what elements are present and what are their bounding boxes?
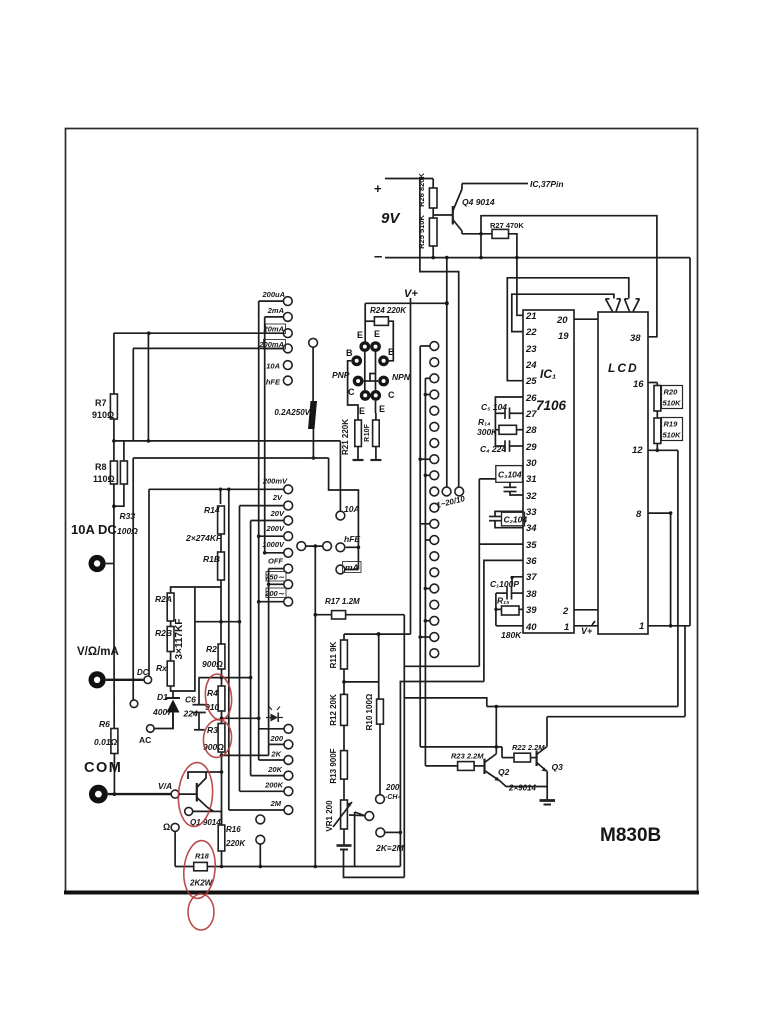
wire 2mA stub to bus xyxy=(265,316,284,318)
wire 20mA branch drop xyxy=(147,333,149,441)
socket pin C right xyxy=(370,390,381,401)
wire R3 bottom to 200 ohm row xyxy=(222,754,269,756)
svg-text:R21 220K: R21 220K xyxy=(341,419,350,455)
svg-text:3×117KF: 3×117KF xyxy=(174,619,185,660)
contact spare upper xyxy=(256,815,265,824)
resistor R17 1.2M xyxy=(315,614,331,616)
svg-text:10A: 10A xyxy=(344,504,360,514)
svg-text:hFE: hFE xyxy=(266,378,281,387)
svg-text:12: 12 xyxy=(632,445,643,456)
wire pin12 riser xyxy=(677,450,679,706)
contact row 11 xyxy=(430,503,439,512)
wire R6 to COM row xyxy=(113,754,115,795)
wire R7 bottom junction xyxy=(113,419,115,461)
svg-text:IC,37Pin: IC,37Pin xyxy=(530,179,564,189)
socket pin C left xyxy=(360,390,371,401)
wire pin8 riser xyxy=(670,513,672,626)
svg-text:1~20/10: 1~20/10 xyxy=(435,494,466,510)
svg-text:9V: 9V xyxy=(381,210,401,227)
resistor R26 820K xyxy=(432,179,434,189)
LCD backplane funnel right xyxy=(625,299,640,312)
capacitor C6 224 xyxy=(198,678,200,705)
transistor Q2 xyxy=(483,759,485,775)
svg-text:2: 2 xyxy=(562,606,569,617)
IC1 pin numbers left column xyxy=(525,311,537,633)
svg-text:R2: R2 xyxy=(206,644,217,654)
wire pin2 to LCD xyxy=(574,609,598,611)
wire bracket mid tie xyxy=(195,621,240,623)
svg-text:IC₁: IC₁ xyxy=(540,367,556,381)
contact row 13 xyxy=(430,536,439,545)
wire 2K-2M stub xyxy=(385,831,401,833)
svg-text:7106: 7106 xyxy=(536,398,567,413)
svg-text:31: 31 xyxy=(526,474,537,485)
node V+ junction xyxy=(445,301,449,305)
resistor R23 2.2M xyxy=(458,762,475,771)
svg-text:8: 8 xyxy=(636,509,642,520)
svg-text:29: 29 xyxy=(525,442,537,453)
wire base feed Q2 xyxy=(420,746,502,748)
contact pair right xyxy=(323,542,332,551)
transistor Q3 xyxy=(535,751,537,767)
svg-text:–: – xyxy=(374,248,382,265)
svg-text:-CH-: -CH- xyxy=(385,794,400,801)
wire H2 xyxy=(400,682,484,867)
svg-text:C: C xyxy=(348,387,355,397)
wire H1 xyxy=(404,665,479,667)
svg-text:R1B: R1B xyxy=(203,554,220,564)
contact row 20 xyxy=(430,649,439,658)
svg-text:R25 510K: R25 510K xyxy=(417,215,426,249)
svg-text:2M: 2M xyxy=(270,799,282,808)
svg-text:R19: R19 xyxy=(664,420,679,429)
svg-text:36: 36 xyxy=(526,556,537,567)
resistor R4 910 xyxy=(218,686,225,711)
wire 10A to R6 xyxy=(113,564,115,729)
op-amp U1 ICL7106 body xyxy=(523,310,574,633)
terminal V-ohm-mA xyxy=(89,671,106,688)
svg-text:19: 19 xyxy=(558,331,569,342)
svg-text:V/A: V/A xyxy=(158,781,172,791)
svg-text:R7: R7 xyxy=(95,398,107,408)
wire 20mA row to R7 xyxy=(114,332,284,334)
svg-text:C: C xyxy=(388,390,395,400)
contact row 15 xyxy=(430,568,439,577)
svg-text:2K2W: 2K2W xyxy=(189,879,214,888)
svg-text:Q4 9014: Q4 9014 xyxy=(462,197,495,207)
svg-text:38: 38 xyxy=(630,333,641,344)
wire Q3 collector riser xyxy=(546,717,548,747)
resistor R22 2.2M xyxy=(501,747,503,758)
contact ohm xyxy=(171,823,179,831)
wire W1 xyxy=(487,706,678,708)
svg-text:E: E xyxy=(357,330,363,340)
resistor R1B xyxy=(218,552,225,580)
red circle below R18 xyxy=(188,894,214,930)
contact spare lower xyxy=(256,835,265,844)
wire COM stub xyxy=(108,793,171,795)
contact 2K-2M xyxy=(376,828,385,837)
contact Q1 emitter xyxy=(185,807,193,815)
svg-text:200V: 200V xyxy=(265,524,285,533)
svg-text:510K: 510K xyxy=(663,399,682,408)
wire W2 xyxy=(547,716,685,718)
svg-text:R20: R20 xyxy=(664,388,679,397)
wire Q1 collector tie to R3 bottom xyxy=(206,771,222,773)
svg-text:VR1 200: VR1 200 xyxy=(325,800,334,832)
current range contact hFE xyxy=(283,376,292,385)
svg-text:R12 20K: R12 20K xyxy=(329,694,338,726)
contact DC xyxy=(144,676,152,684)
voltage range contact 20V xyxy=(284,516,293,525)
resistor R14 2x274KF xyxy=(218,506,225,534)
wire V terminal stub xyxy=(106,679,144,681)
svg-text:M830B: M830B xyxy=(600,825,661,846)
svg-text:33: 33 xyxy=(526,507,537,518)
wire minus rail right drop xyxy=(689,258,691,626)
wire pin1 to LCD xyxy=(574,625,598,627)
svg-text:R24 220K: R24 220K xyxy=(370,306,407,315)
switch position OFF xyxy=(284,564,293,573)
bus wire B7 xyxy=(268,569,270,745)
wire bracket around Rx chain xyxy=(171,587,221,691)
ground Q2 Q3 xyxy=(540,799,556,802)
wire ohm drop to bottom rail xyxy=(174,832,176,867)
resistor R2A xyxy=(167,593,174,621)
wire pin8 row xyxy=(648,512,671,514)
thick bottom border xyxy=(64,891,699,895)
resistor R18 2K2W xyxy=(194,862,208,870)
red circle around R3 xyxy=(202,718,234,759)
svg-text:R16: R16 xyxy=(226,825,241,834)
svg-text:300K: 300K xyxy=(477,427,498,437)
svg-text:40: 40 xyxy=(525,622,537,633)
resistor R 10F xyxy=(375,401,377,413)
resistor R27 470K xyxy=(462,233,492,235)
voltage range contact 200mV xyxy=(284,485,293,494)
wire V+ rail xyxy=(410,298,412,634)
wire bottom loop xyxy=(344,850,405,877)
wire battery - rail xyxy=(385,257,690,259)
current range contact 10A xyxy=(283,361,292,370)
contact row 5 xyxy=(430,406,439,415)
ohm range contact 200 xyxy=(284,740,293,749)
svg-text:200mV: 200mV xyxy=(262,477,288,486)
capacitor C3 104 xyxy=(496,466,523,483)
svg-text:C₁100P: C₁100P xyxy=(490,579,519,589)
voltage range contact 1000V xyxy=(284,548,293,557)
voltage range contact 200V xyxy=(284,532,293,541)
contact buzzer 200 xyxy=(376,795,385,804)
wire R27 left node up and over to LCD pin38 xyxy=(481,216,657,337)
svg-text:4007: 4007 xyxy=(152,707,173,717)
svg-text:21: 21 xyxy=(525,311,537,322)
svg-text:200∼: 200∼ xyxy=(264,589,285,598)
svg-text:220K: 220K xyxy=(225,839,246,848)
wire battery + drop to switch wiper feed xyxy=(420,179,459,488)
svg-text:200K: 200K xyxy=(264,781,284,790)
svg-text:28: 28 xyxy=(525,425,537,436)
svg-text:+: + xyxy=(374,181,382,196)
wire pin37 tap xyxy=(512,577,523,587)
wire 200mA row xyxy=(133,347,284,349)
contact row 10 xyxy=(430,487,439,496)
wire pin36 run xyxy=(484,560,523,681)
wire hFE jack path xyxy=(329,458,359,570)
wire pin35 riser xyxy=(478,479,480,666)
ohm range contact 200K xyxy=(284,787,293,796)
contact row 16 xyxy=(430,584,439,593)
contact row 18 xyxy=(430,616,439,625)
svg-text:C₅ 104: C₅ 104 xyxy=(481,402,507,412)
svg-text:mA: mA xyxy=(345,563,359,573)
svg-text:1: 1 xyxy=(564,622,569,633)
red circle around R4 xyxy=(203,673,234,721)
svg-text:10A DC: 10A DC xyxy=(71,522,117,537)
wire bottom rail left xyxy=(175,866,194,868)
contact pair left xyxy=(297,542,306,551)
resistor R2B xyxy=(167,627,174,652)
socket pin E left xyxy=(359,341,370,352)
svg-text:R4: R4 xyxy=(207,688,218,698)
svg-text:R23 2.2M: R23 2.2M xyxy=(451,752,484,761)
wire 200uA stub to bus xyxy=(259,300,284,302)
diode range symbol xyxy=(271,714,279,722)
current range contact 200uA xyxy=(283,297,292,306)
wire pair drop to R17 rail xyxy=(314,546,316,866)
contact mA jack xyxy=(336,565,345,574)
svg-text:R13 900F: R13 900F xyxy=(329,748,338,783)
svg-text:2mA: 2mA xyxy=(267,306,284,315)
svg-text:1: 1 xyxy=(639,621,644,632)
bus wire B6 xyxy=(264,317,266,553)
LCD backplane funnel left xyxy=(606,299,621,312)
wire R8 bottom to 10A terminal xyxy=(113,484,115,564)
svg-text:32: 32 xyxy=(526,491,537,502)
ground VR1 xyxy=(343,829,345,845)
wire IC pin25 to LCD right funnel xyxy=(507,278,629,381)
svg-text:20K: 20K xyxy=(267,765,282,774)
svg-text:110Ω: 110Ω xyxy=(93,474,115,484)
wire base feed Q3 via R23 xyxy=(425,765,457,767)
svg-text:Q3: Q3 xyxy=(552,762,564,772)
svg-text:R8: R8 xyxy=(95,462,107,472)
contact row 19 xyxy=(430,633,439,642)
wire fuse feed xyxy=(312,347,314,401)
svg-text:AC: AC xyxy=(139,735,151,745)
svg-text:R18: R18 xyxy=(195,852,210,861)
wire 200mA branch drop xyxy=(132,348,134,441)
capacitor C2 104 xyxy=(489,516,501,518)
wire 10A feed xyxy=(339,441,341,511)
contact row 7 xyxy=(430,439,439,448)
svg-text:24: 24 xyxy=(525,360,537,371)
svg-text:20: 20 xyxy=(556,315,568,326)
current range contact 20mA xyxy=(283,329,292,338)
wire socket E-C right column xyxy=(375,352,377,390)
svg-text:R2B: R2B xyxy=(155,628,172,638)
contact V/A xyxy=(171,790,179,798)
svg-text:LCD: LCD xyxy=(608,361,639,375)
svg-text:R27 470K: R27 470K xyxy=(490,221,524,230)
resistance range contact 200 xyxy=(284,597,293,606)
svg-text:E: E xyxy=(359,406,365,416)
svg-text:2×9014: 2×9014 xyxy=(508,784,536,793)
svg-text:200: 200 xyxy=(269,734,283,743)
svg-text:R6: R6 xyxy=(99,719,110,729)
socket pin mid right xyxy=(378,376,389,387)
resistor Rx xyxy=(167,661,174,686)
svg-text:200uA: 200uA xyxy=(261,290,285,299)
wire C6 node rail to bus xyxy=(199,677,251,679)
resistor R2 900 xyxy=(218,644,225,669)
ohm range contact diode row xyxy=(284,724,293,733)
wire R27 left node to minus rail xyxy=(480,234,482,258)
svg-text:200: 200 xyxy=(385,783,400,792)
svg-text:35: 35 xyxy=(526,540,537,551)
svg-text:Ω: Ω xyxy=(163,822,170,832)
svg-text:R2A: R2A xyxy=(155,594,172,604)
svg-text:DC: DC xyxy=(137,668,149,677)
contact row 3 xyxy=(430,374,439,383)
contact row 4 xyxy=(430,390,439,399)
wire Q2 collector riser xyxy=(495,707,497,754)
resistor R7 910 xyxy=(113,333,115,394)
contact row 12 xyxy=(430,519,439,528)
bus wire switch left B xyxy=(424,378,426,766)
contact buzzer range xyxy=(365,812,374,821)
bus wire B5 xyxy=(258,301,260,760)
svg-text:25: 25 xyxy=(525,376,537,387)
wire minus rail to IC pin21 xyxy=(517,258,523,316)
wire pin12 row xyxy=(648,449,678,451)
contact row 14 xyxy=(430,552,439,561)
svg-text:Rx: Rx xyxy=(156,663,168,673)
wire DC contact drop xyxy=(148,489,150,676)
svg-text:0.2A250V: 0.2A250V xyxy=(274,408,310,417)
svg-text:900Ω: 900Ω xyxy=(202,659,223,669)
terminal COM xyxy=(89,785,108,804)
svg-text:E: E xyxy=(379,404,385,414)
wire AC drop xyxy=(132,458,134,700)
resistor R6 0.01 xyxy=(111,729,118,754)
bus wire B3 xyxy=(250,521,252,776)
switch wiper contact circle right xyxy=(455,487,464,496)
svg-text:B: B xyxy=(346,348,353,358)
svg-text:37: 37 xyxy=(526,572,537,583)
svg-text:2V: 2V xyxy=(272,493,283,502)
svg-text:R10 100Ω: R10 100Ω xyxy=(365,693,374,730)
wire R27 right to minus rail xyxy=(509,234,517,258)
svg-text:COM: COM xyxy=(84,760,122,776)
wire H3 xyxy=(404,698,487,707)
contact row 1 xyxy=(430,342,439,351)
wire AC to D1 xyxy=(154,713,173,729)
wire fuse bottom xyxy=(312,429,314,458)
svg-text:C₂104: C₂104 xyxy=(504,515,528,525)
svg-text:10A: 10A xyxy=(266,362,280,371)
svg-text:100Ω: 100Ω xyxy=(117,526,138,536)
contact AC upper xyxy=(130,700,138,708)
svg-text:2K: 2K xyxy=(270,750,281,759)
wire R11 top rail xyxy=(344,633,411,635)
wire battery + rail xyxy=(385,178,433,180)
svg-text:23: 23 xyxy=(525,344,537,355)
wire pin40 run xyxy=(496,625,523,627)
svg-text:R14: R14 xyxy=(204,505,220,515)
socket pin B left xyxy=(351,355,362,366)
resistor R33 100 xyxy=(123,441,125,461)
svg-text:Q2: Q2 xyxy=(498,767,510,777)
resistor R16 220K xyxy=(214,810,222,812)
bus wire B1 xyxy=(228,489,230,810)
svg-text:34: 34 xyxy=(526,523,537,534)
socket pin E right xyxy=(370,341,381,352)
current range contact 200mA xyxy=(283,344,292,353)
contact row 8 xyxy=(430,455,439,464)
wire minus rail drop to V+ node xyxy=(446,258,448,487)
node - rail / R25 xyxy=(431,256,435,260)
svg-text:30: 30 xyxy=(526,458,537,469)
diode D1 4007 xyxy=(172,691,174,698)
fuse 0.2A250V xyxy=(308,401,317,429)
svg-text:16: 16 xyxy=(633,379,644,390)
svg-text:2×274KF: 2×274KF xyxy=(185,533,222,543)
socket pin B right xyxy=(378,355,389,366)
potentiometer VR1 200 xyxy=(341,800,348,829)
resistor R11 9K xyxy=(343,634,345,640)
contact 10A jack xyxy=(336,511,345,520)
border frame xyxy=(66,129,698,892)
svg-text:20V: 20V xyxy=(270,509,285,518)
red circle around Q1 xyxy=(176,761,214,827)
svg-text:NPN: NPN xyxy=(392,372,411,382)
wire pin1 row xyxy=(648,625,690,627)
wire socket mid row xyxy=(364,380,379,382)
wire ladder riser xyxy=(220,489,222,504)
resistor R3 900 xyxy=(218,724,225,753)
svg-text:910Ω: 910Ω xyxy=(92,410,114,420)
svg-text:V/Ω/mA: V/Ω/mA xyxy=(77,646,119,658)
wire ladder top rail xyxy=(133,457,328,459)
svg-text:22: 22 xyxy=(525,327,537,338)
fuse contact circle xyxy=(309,338,318,347)
contact row 6 xyxy=(430,422,439,431)
transistor Q1 9014 xyxy=(179,793,196,795)
svg-text:OFF: OFF xyxy=(268,557,283,566)
svg-text:B: B xyxy=(388,347,395,357)
resistor R10 100 xyxy=(378,634,380,699)
terminal 10A DC xyxy=(89,555,106,572)
resistor R21 220K xyxy=(355,420,362,447)
contact hFE jack xyxy=(336,543,345,552)
wire pair link xyxy=(306,545,323,547)
contact row 2 xyxy=(430,358,439,367)
svg-text:224: 224 xyxy=(183,709,198,719)
wire pin1 riser xyxy=(684,626,686,717)
ohm range contact 20K xyxy=(284,771,293,780)
voltage range contact 750V xyxy=(284,580,293,589)
bus wire B2 xyxy=(239,506,241,792)
resistor R19 510K xyxy=(654,418,661,444)
wire R4-R3 node to bus xyxy=(222,717,259,719)
resistor R8 110 xyxy=(110,461,117,484)
current range contact 2mA xyxy=(283,313,292,322)
wire pin16 to R20 xyxy=(648,382,657,384)
svg-text:R 10F: R 10F xyxy=(364,423,371,441)
wire pin26 bus xyxy=(495,397,523,446)
red circle around R18 xyxy=(181,839,218,900)
